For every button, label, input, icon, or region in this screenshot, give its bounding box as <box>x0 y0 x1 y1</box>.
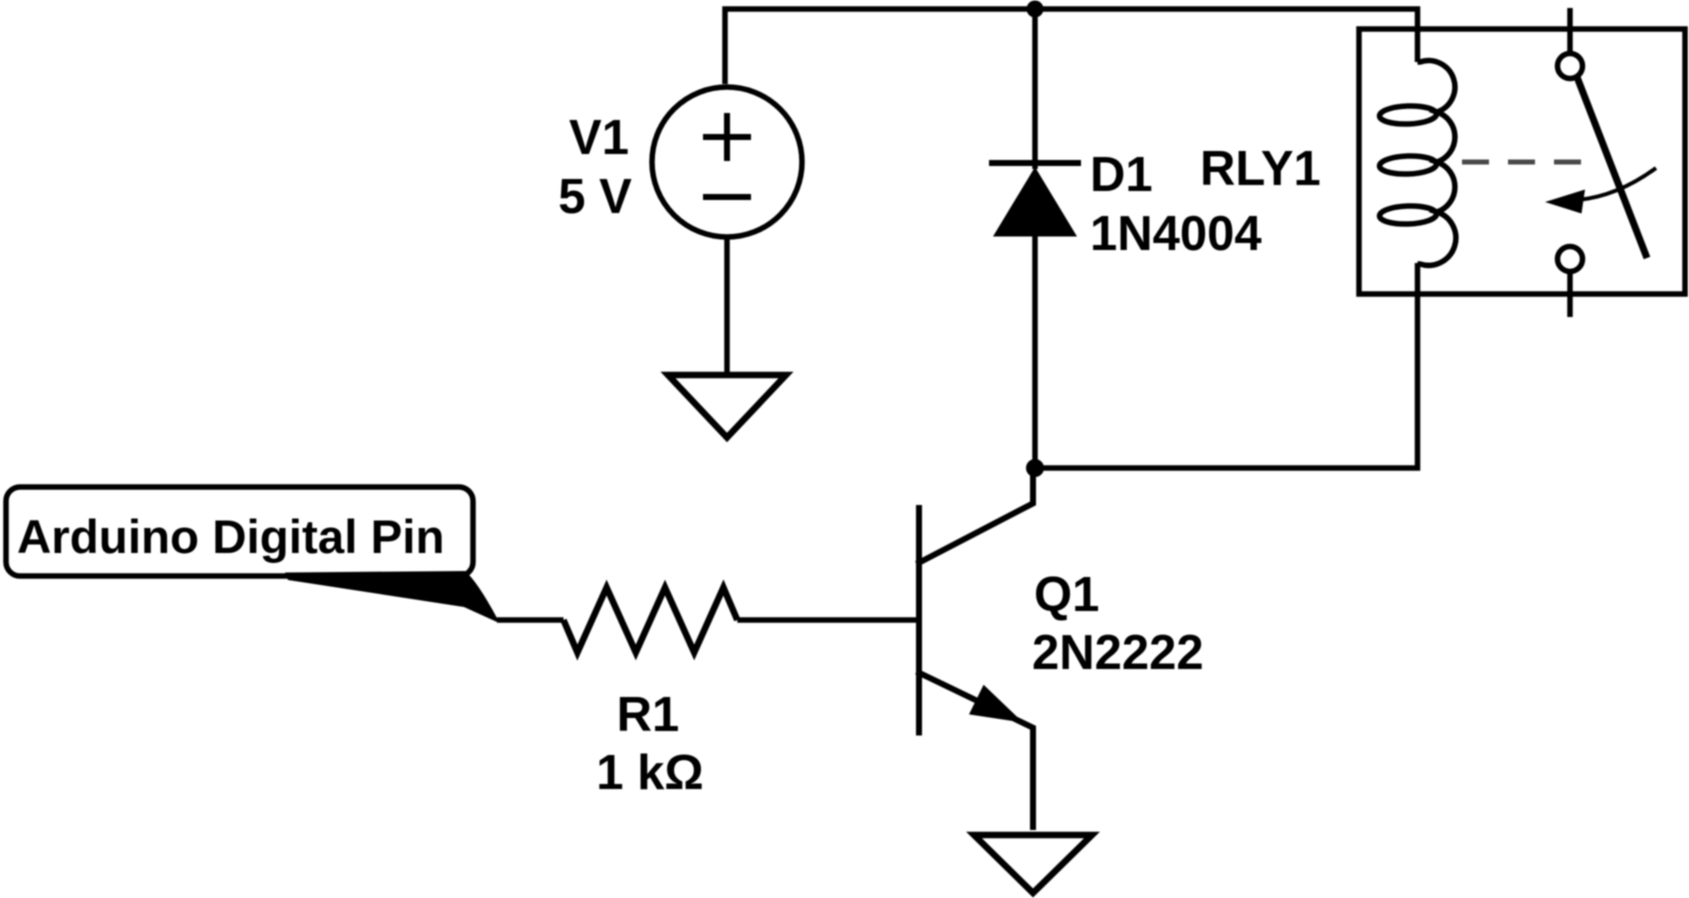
svg-text:1N4004: 1N4004 <box>1090 207 1262 261</box>
svg-text:Arduino Digital Pin: Arduino Digital Pin <box>17 511 444 564</box>
svg-text:D1: D1 <box>1090 148 1153 202</box>
svg-text:1 kΩ: 1 kΩ <box>596 746 703 800</box>
svg-text:RLY1: RLY1 <box>1200 142 1321 196</box>
svg-text:V1: V1 <box>569 111 629 165</box>
svg-text:R1: R1 <box>617 688 680 742</box>
svg-text:5 V: 5 V <box>558 170 632 224</box>
svg-text:2N2222: 2N2222 <box>1032 626 1204 680</box>
svg-text:Q1: Q1 <box>1034 568 1099 622</box>
